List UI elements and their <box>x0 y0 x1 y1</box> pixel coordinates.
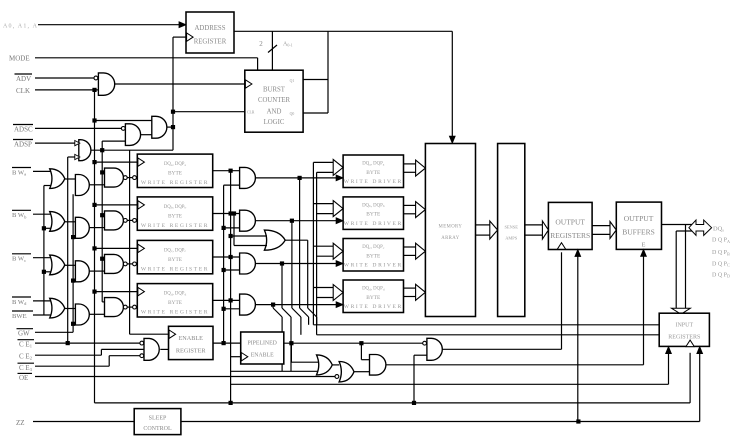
wire G1 output to burst counter clock <box>115 83 245 85</box>
wire branch to gate A <box>290 343 292 362</box>
wire register C output <box>213 256 240 258</box>
bus vertical data 1 <box>312 162 314 324</box>
and gate write drive B <box>240 210 256 231</box>
svg-text:ADSC: ADSC <box>14 125 33 133</box>
wire enable distribution vertical <box>223 185 225 343</box>
junction enable row C <box>222 268 226 272</box>
svg-text:DQc, DQPc: DQc, DQPc <box>164 248 187 253</box>
wire write merge output <box>285 239 308 241</box>
wire burst outputs merge vertical <box>327 31 329 113</box>
svg-text:WRITE DRIVER: WRITE DRIVER <box>344 263 403 269</box>
junction clock row B <box>92 203 96 207</box>
bus driver B to memory array <box>404 204 416 206</box>
wire CLK branch to G3 <box>95 120 152 122</box>
svg-text:D Q PA: D Q PA <box>712 238 730 244</box>
wire CE2 input <box>35 354 101 356</box>
junction CE1 vertical <box>66 341 70 345</box>
nand gate byte write A stage3 <box>105 168 124 187</box>
junction CLK to G3 <box>92 118 96 122</box>
address register U1 <box>186 12 234 53</box>
junction GW row C <box>71 279 75 283</box>
or gate B output path <box>335 375 339 379</box>
wire stage3 to register A <box>128 177 133 179</box>
wire write row vertical 3 <box>281 264 283 309</box>
wire G5 output <box>160 348 168 350</box>
bus data into driver A <box>313 161 333 163</box>
wire sleep up to input registers <box>699 353 701 422</box>
wire gating branch row B <box>102 214 104 216</box>
wire branch to gate C <box>360 343 362 360</box>
junction CLR branch <box>171 110 175 114</box>
wire vertical to address register clock and CLR <box>172 37 174 150</box>
input registers U7 <box>659 313 709 346</box>
clock pin pipelined enable <box>241 353 248 361</box>
and gate C output enable <box>370 355 386 376</box>
wire BWE branch row B <box>44 227 51 229</box>
pipelined enable U9 <box>241 332 284 364</box>
svg-text:BYTE: BYTE <box>366 212 381 218</box>
svg-text:D Q PC: D Q PC <box>712 261 730 267</box>
wire branch up to G2 input <box>101 141 103 150</box>
wire stage1 to stage2 row D <box>65 308 76 310</box>
byte write driver C <box>343 239 403 272</box>
junction gating row B <box>100 213 104 217</box>
svg-text:ADSP: ADSP <box>14 140 32 148</box>
svg-text:2: 2 <box>259 40 263 48</box>
wire BWc input <box>33 257 51 259</box>
wire sleep to output registers <box>575 250 581 257</box>
junction sleep to output registers <box>576 419 580 423</box>
wire to input registers write strobe <box>231 383 669 385</box>
wire GW branch row B <box>73 236 75 238</box>
svg-text:DQa, DQPa: DQa, DQPa <box>164 162 187 167</box>
wire register vertical to gate A <box>231 370 318 372</box>
and gate G1 ADV CLK <box>94 76 98 80</box>
wire write merge vertical <box>307 240 309 308</box>
clock pin output registers <box>557 243 565 250</box>
svg-text:MODE: MODE <box>9 55 30 63</box>
and gate G3 <box>152 116 167 138</box>
wire ADSC input <box>35 127 121 129</box>
junction BWE row C <box>42 270 46 274</box>
junction enable output <box>222 341 226 345</box>
wire CE3 input <box>35 365 109 367</box>
clock pin enable register <box>169 330 176 338</box>
wire gate E output to output registers clock <box>442 348 561 350</box>
svg-text:SLEEP: SLEEP <box>149 415 167 421</box>
wire clock to register C <box>95 247 138 249</box>
sleep control U10 <box>134 409 181 435</box>
junction CLK <box>92 88 96 92</box>
svg-text:BYTE: BYTE <box>366 170 381 176</box>
wire stage2 to stage3 row B <box>89 227 104 229</box>
wire BWb input <box>33 213 51 215</box>
wire BWa input <box>33 170 51 172</box>
wire enable register output <box>213 342 241 344</box>
and gate E output clock <box>423 341 427 345</box>
byte write driver D <box>343 280 403 313</box>
junction write merge input 1 <box>229 234 233 238</box>
or gate byte write C stage1 <box>50 255 65 275</box>
svg-text:WRITE REGISTER: WRITE REGISTER <box>141 310 209 316</box>
svg-text:D Q PB: D Q PB <box>712 250 730 256</box>
wire enable branch row A <box>224 184 240 186</box>
wire enable branch row C <box>224 269 240 271</box>
junction clock row D <box>92 290 96 294</box>
svg-text:BWE: BWE <box>12 313 27 320</box>
wire BWd input <box>33 300 51 302</box>
wire clock to register D <box>95 291 138 293</box>
wire A(0-1) drop to burst counter <box>271 31 273 70</box>
wire register B output <box>213 213 240 215</box>
wire CLR to burst counter <box>173 111 245 113</box>
wire write signal row D <box>255 304 337 306</box>
clock pin byte write register C <box>138 244 145 252</box>
svg-text:DQd, DQPd: DQd, DQPd <box>164 292 187 297</box>
svg-text:WRITE DRIVER: WRITE DRIVER <box>344 221 403 227</box>
wire post jog vertical b <box>290 317 292 371</box>
junction pipeline branch C <box>359 341 363 345</box>
bus memory to sense amps <box>476 224 490 226</box>
svg-text:BYTE: BYTE <box>168 300 183 306</box>
wire stage3 to register C <box>128 263 133 265</box>
svg-text:WRITE REGISTER: WRITE REGISTER <box>141 223 209 229</box>
wire address bus down to memory array <box>451 31 453 137</box>
junction register C output <box>229 255 233 259</box>
svg-text:GW: GW <box>18 330 30 338</box>
junction enable row D <box>222 307 226 311</box>
wire write merge input 2 <box>234 245 267 247</box>
wire post jog vertical e <box>316 317 318 325</box>
svg-text:COUNTER: COUNTER <box>258 97 291 104</box>
bus output buffers to DQ pins <box>662 224 697 226</box>
svg-text:INPUT: INPUT <box>675 323 693 329</box>
svg-text:DQc, DQPc: DQc, DQPc <box>362 245 385 250</box>
wire gate C output to output buffers E <box>386 364 644 366</box>
svg-text:ADDRESS: ADDRESS <box>195 25 226 32</box>
wire stage1 to stage2 row A <box>65 178 76 180</box>
bus driver D to memory array <box>404 287 416 289</box>
wire write signal row C <box>255 263 337 265</box>
svg-text:E: E <box>642 241 646 248</box>
wire stage3 to register B <box>128 219 133 221</box>
svg-text:BYTE: BYTE <box>168 171 183 177</box>
junction CLK gate E <box>412 401 416 405</box>
clock pin address register <box>187 33 194 41</box>
clock pin byte write register D <box>138 287 145 295</box>
junction register B output <box>229 211 233 215</box>
wire register D output <box>213 299 240 301</box>
svg-text:AND: AND <box>267 108 282 115</box>
wire write row vertical 1 <box>299 178 301 308</box>
svg-text:ADV: ADV <box>16 75 31 83</box>
wire G2 output <box>141 134 152 136</box>
byte write driver A <box>343 155 403 188</box>
svg-text:WRITE REGISTER: WRITE REGISTER <box>141 266 209 272</box>
wire chip-enable vertical to G4 <box>68 156 75 158</box>
junction gating row C <box>100 257 104 261</box>
wire gate A to gate B <box>332 364 339 366</box>
wire GW input <box>35 331 73 333</box>
svg-text:BYTE: BYTE <box>168 213 183 219</box>
wire enable branch row B <box>224 227 240 229</box>
svg-text:REGISTERS: REGISTERS <box>550 231 590 240</box>
bus output registers to output buffers <box>592 225 610 227</box>
svg-text:ENABLE: ENABLE <box>251 353 274 359</box>
wire CLK branch to gate E <box>414 354 427 356</box>
wire ZZ input <box>33 421 134 423</box>
junction GW row B <box>71 235 75 239</box>
wire burst Q0 output <box>303 112 328 114</box>
junction clock row A <box>92 160 96 164</box>
wire write signal row A <box>255 177 337 179</box>
junction GW row D <box>71 322 75 326</box>
wire G4 output <box>91 149 173 151</box>
svg-text:CLR: CLR <box>247 111 255 115</box>
wire BWE branch row A <box>44 185 51 187</box>
wire BWE branch row C <box>44 271 51 273</box>
and gate G5 chip enable <box>140 341 144 345</box>
wire CLK vertical distribution <box>94 90 96 403</box>
wire register outputs vertical <box>230 171 232 403</box>
wire OE input <box>35 376 335 378</box>
and gate byte write C stage2 <box>75 261 89 282</box>
bus driver A to memory array <box>404 163 416 165</box>
wire clock to register A <box>95 161 138 163</box>
nand gate byte write B stage3 <box>105 211 124 230</box>
or gate write merge <box>264 230 285 250</box>
output buffers U6 <box>616 202 661 249</box>
junction enable row B <box>222 226 226 230</box>
svg-text:WRITE DRIVER: WRITE DRIVER <box>344 304 403 310</box>
wire address input to address register <box>38 24 180 26</box>
svg-text:ZZ: ZZ <box>16 419 25 427</box>
byte write register C <box>137 240 212 273</box>
wire clock to address register <box>173 36 186 38</box>
bus driver C to memory array <box>404 246 416 248</box>
and gate write drive A <box>240 167 256 188</box>
junction register vertical bottom <box>229 401 233 405</box>
svg-text:CLK: CLK <box>16 87 30 95</box>
bus data into driver B <box>313 203 333 205</box>
junction clock row C <box>92 246 96 250</box>
wire write row vertical 4 <box>272 305 274 308</box>
wire stage1 to stage2 row B <box>65 221 76 223</box>
svg-text:WRITE REGISTER: WRITE REGISTER <box>141 180 209 186</box>
wire ADV input <box>35 77 94 79</box>
clock pin byte write register A <box>138 158 145 166</box>
wire stage2 to stage3 row D <box>89 313 104 315</box>
sense amps U4 <box>498 144 525 317</box>
svg-text:REGISTER: REGISTER <box>194 38 227 45</box>
wire GW branch row C <box>73 280 75 282</box>
output registers U5 <box>548 202 592 249</box>
svg-text:ENABLE: ENABLE <box>178 335 203 342</box>
wire G3 output <box>167 126 173 128</box>
svg-text:OE: OE <box>19 374 28 382</box>
clock pin burst counter <box>245 80 252 88</box>
svg-text:A0-1: A0-1 <box>283 42 293 48</box>
svg-text:OUTPUT: OUTPUT <box>624 214 654 223</box>
wire BWE input <box>33 314 51 316</box>
wire CE1 input <box>35 342 140 344</box>
byte write register B <box>137 197 212 230</box>
wire pipelined enable output <box>284 342 425 344</box>
wire CLK to input registers <box>95 402 691 404</box>
wire write signal row B <box>255 220 337 222</box>
junction pipeline branch A <box>289 341 293 345</box>
wire stage2 to stage3 row A <box>89 184 104 186</box>
nand gate byte write C stage3 <box>105 254 124 273</box>
svg-text:A0, A1, A: A0, A1, A <box>3 23 38 29</box>
svg-text:REGISTER: REGISTER <box>176 348 206 355</box>
svg-text:DQd, DQPd: DQd, DQPd <box>362 287 385 292</box>
svg-text:MEMORY: MEMORY <box>439 225 463 230</box>
wire enable branch row D <box>224 308 240 310</box>
svg-text:ARRAY: ARRAY <box>441 236 459 241</box>
wire GW vertical <box>72 194 74 332</box>
bus width slash <box>268 45 277 53</box>
wire GW branch row D <box>73 323 75 325</box>
wire address register output bus <box>234 30 452 32</box>
wire register A output <box>213 170 240 172</box>
svg-text:Q1: Q1 <box>290 79 295 83</box>
wire stage3 to register D <box>128 306 133 308</box>
bus data into driver C <box>313 245 333 247</box>
wire enable to output buffers <box>641 249 647 256</box>
wire post jog vertical c <box>300 317 302 335</box>
wire BWE vertical <box>43 186 45 316</box>
and gate byte write A stage2 <box>75 175 89 196</box>
svg-text:B Wc: B Wc <box>12 256 26 263</box>
wire MODE to burst counter <box>35 57 258 59</box>
wire post jog vertical d <box>308 317 310 325</box>
svg-text:DQb, DQPb: DQb, DQPb <box>164 205 187 210</box>
junction register A output <box>229 169 233 173</box>
and gate byte write D stage2 <box>75 304 89 325</box>
bus input registers data line 1 <box>313 324 659 326</box>
svg-text:BUFFERS: BUFFERS <box>622 228 655 237</box>
wire clock to register B <box>95 204 138 206</box>
svg-text:REGISTERS: REGISTERS <box>668 335 700 341</box>
or gate byte write D stage1 <box>50 298 65 318</box>
wire write row vertical 2 <box>291 221 293 308</box>
junction BWE row B <box>42 226 46 230</box>
and gate write drive C <box>240 253 256 274</box>
junction register D output <box>229 298 233 302</box>
wire write merge input 1 <box>231 235 267 237</box>
wire gating branch row C <box>102 258 104 260</box>
and gate write drive D <box>240 294 256 315</box>
bus data into driver D <box>313 287 333 289</box>
wire CLK input <box>35 89 98 91</box>
wire gate B to gate C <box>354 371 370 373</box>
or gate byte write B stage1 <box>50 212 65 232</box>
clock pin byte write register B <box>138 201 145 209</box>
and gate byte write B stage2 <box>75 217 89 238</box>
wire stage2 to stage3 row C <box>89 270 104 272</box>
wire load signal down to enable register clock <box>129 150 131 334</box>
svg-text:WRITE DRIVER: WRITE DRIVER <box>344 179 403 185</box>
burst counter and logic U2 <box>245 70 303 132</box>
svg-text:BYTE: BYTE <box>366 295 381 301</box>
wire burst Q1 output <box>303 79 328 81</box>
or gate byte write A stage1 <box>50 169 65 189</box>
bus DQ down to input registers <box>675 231 677 308</box>
svg-text:BURST: BURST <box>263 87 286 94</box>
byte write register D <box>137 284 212 317</box>
svg-text:B Wa: B Wa <box>12 169 26 176</box>
wire jog diagonals <box>273 308 282 317</box>
junction G3 output <box>171 125 175 129</box>
bidirectional DQ arrow <box>689 220 712 235</box>
svg-text:DQb, DQPb: DQb, DQPb <box>362 203 385 208</box>
wire ADSP input <box>35 142 80 144</box>
memory array U3 <box>425 144 475 317</box>
wire gating branch row A <box>102 171 104 173</box>
svg-text:D Q PD: D Q PD <box>712 272 730 278</box>
svg-text:LOGIC: LOGIC <box>264 119 285 126</box>
svg-text:BYTE: BYTE <box>168 257 183 263</box>
byte write register A <box>137 154 212 187</box>
svg-text:OUTPUT: OUTPUT <box>555 218 585 227</box>
bus input registers data line 2 <box>317 334 660 336</box>
or gate A output path <box>317 355 333 375</box>
wire sleep control output <box>181 421 700 423</box>
wire pipelined clock tap <box>231 356 241 358</box>
bus sense amps to output registers <box>525 224 543 226</box>
byte write driver B <box>343 197 403 230</box>
wire post jog vertical a <box>281 317 283 371</box>
nand gate byte write D stage3 <box>105 298 124 317</box>
bus vertical data 2 <box>316 172 318 334</box>
svg-text:PIPELINED: PIPELINED <box>248 341 277 347</box>
junction G4 output to G2 <box>100 148 104 152</box>
junction gating row A <box>100 170 104 174</box>
wire stage1 to stage2 row C <box>65 264 76 266</box>
wire gating branch row D <box>102 301 104 303</box>
svg-text:AMPS: AMPS <box>505 236 518 241</box>
junction write merge input 2 <box>232 211 236 215</box>
enable register U8 <box>169 326 214 359</box>
wire gating vertical to byte write gates <box>101 150 103 302</box>
and gate G4 ADSP <box>79 140 91 161</box>
svg-text:DQa, DQPa: DQa, DQPa <box>362 162 385 167</box>
svg-text:CONTROL: CONTROL <box>143 426 172 432</box>
svg-text:Q0: Q0 <box>290 112 295 116</box>
and gate G2 ADSC <box>121 126 125 130</box>
svg-text:BYTE: BYTE <box>366 253 381 259</box>
svg-text:SENSE: SENSE <box>504 225 518 230</box>
